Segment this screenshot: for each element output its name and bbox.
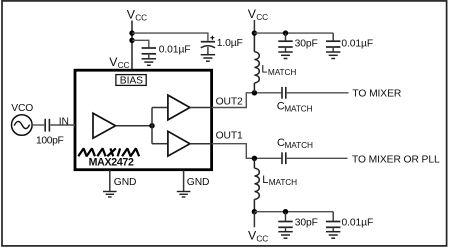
svg-text:0.01µF: 0.01µF [159,45,191,56]
wire cap to ground [148,55,150,59]
BIAS block [116,75,146,87]
wire cap to IN pin [50,124,75,126]
ground (under 0.01uF bottom-right) [326,232,340,239]
wire stub to 30pF [285,33,287,40]
svg-text:BIAS: BIAS [120,76,143,87]
svg-text:MATCH: MATCH [268,67,296,77]
svg-text:TO MIXER OR PLL: TO MIXER OR PLL [352,154,440,165]
junction node OUT2 match [252,90,257,95]
wire VCC rail bottom-right [254,211,333,213]
svg-text:CC: CC [256,12,268,22]
inductor LMATCH top [254,33,259,93]
capacitor CMATCH (top, series) [282,87,286,99]
ground (under 30pF top) [278,52,292,59]
wire VCO to coupling cap [32,124,44,126]
wire buffer out to split node [116,125,152,127]
svg-text:MAX2472: MAX2472 [89,156,134,168]
ground (under 0.01uF top-left) [142,59,156,66]
wire split vertical [151,108,153,144]
svg-text:100pF: 100pF [36,135,64,146]
pin GND 2 [183,170,185,191]
label LMATCH bottom [262,174,297,187]
capacitor 1.0uF (polarized) [201,42,215,48]
plus polarity mark [210,36,214,40]
svg-text:OUT2: OUT2 [216,97,243,108]
wire to 0.01uF cap [132,40,149,47]
svg-text:0.01µF: 0.01µF [342,218,374,229]
wire cap to mixer/pll [287,157,348,159]
IC U1 MAX2472 body [75,70,212,170]
svg-text:1.0µF: 1.0µF [217,38,243,49]
pin GND 1 [109,170,111,191]
wire to 1.0uF cap [132,33,208,41]
label CMATCH bottom [277,137,313,150]
svg-text:30pF: 30pF [295,39,318,50]
svg-text:L: L [261,64,267,76]
op-amp input buffer [93,113,116,138]
wire stub to 0.01uF bottom [332,212,334,221]
wire cap to mixer [287,92,349,94]
capacitor 100pF (series input) [45,119,49,132]
label CMATCH top [277,100,313,113]
svg-text:0.01µF: 0.01µF [341,39,373,50]
wire cap to ground [285,48,287,52]
label LMATCH top [261,64,296,77]
wire top amp to OUT2 pin [190,107,212,109]
wire VCC rail top-right [254,32,333,34]
node VCC (top-left supply label) [127,7,147,22]
svg-text:TO MIXER: TO MIXER [352,89,401,100]
capacitor CMATCH (bottom, series) [282,152,286,164]
wire stub to 0.01uF [332,33,334,40]
MAXIM logo [78,148,139,156]
junction node split [149,123,154,128]
junction node OUT1 match [252,156,257,161]
capacitor 0.01uF (top-right) [326,41,340,47]
op-amp output buffer top [168,95,190,120]
inductor LMATCH bottom [254,158,259,211]
svg-text:MATCH: MATCH [269,177,297,187]
wire cap to ground [207,47,209,54]
svg-text:30pF: 30pF [295,218,318,229]
op-amp output buffer bottom [168,131,190,156]
capacitor 30pF (bottom) [278,222,292,228]
wire to bottom amp [152,143,168,145]
ground (pin 1) [103,192,117,198]
node VCC (top-right supply) [248,7,268,22]
source VCO [11,103,33,135]
wire bottom amp to OUT1 pin [190,143,212,145]
wire OUT2 to match node [212,93,281,108]
wire to top amp [152,107,168,109]
wire OUT1 to match node [212,144,281,159]
capacitor 0.01uF (top-left) [142,48,156,54]
junction dot VCC rail left [252,30,257,35]
ground (under 30pF bottom) [278,232,292,239]
svg-text:IN: IN [59,116,69,127]
svg-text:GND: GND [187,177,210,188]
svg-text:GND: GND [114,177,137,188]
capacitor 0.01uF (bottom-right) [326,222,340,228]
svg-text:MATCH: MATCH [284,103,312,113]
svg-text:VCO: VCO [11,103,33,114]
svg-text:L: L [262,174,268,186]
svg-text:CC: CC [256,234,268,244]
junction dot bottom rail left [252,209,257,214]
wire cap to ground [285,228,287,231]
wire VCC vertical down to BIAS pin [131,21,133,70]
node VCC (at BIAS pin) [109,55,129,70]
ground (under 1.0uF) [201,55,215,62]
wire cap to ground [332,48,334,52]
svg-text:CC: CC [135,12,147,22]
wire VCC stub bottom [253,212,255,228]
wire stub to 30pF bottom [285,212,287,221]
capacitor 30pF (top) [278,41,292,47]
node VCC (bottom supply) [248,229,268,244]
wire cap to ground [332,228,334,231]
ground (under 0.01uF top-right) [326,52,340,59]
wire VCC stub [253,20,255,33]
svg-text:MATCH: MATCH [285,140,313,150]
junction dot upper [129,30,134,35]
ground (pin 2) [177,192,191,198]
junction dot above bottom 30pF [283,209,288,214]
svg-text:CC: CC [118,60,130,70]
junction dot above 30pF [283,30,288,35]
junction dot lower [129,38,134,43]
svg-text:OUT1: OUT1 [216,131,243,142]
